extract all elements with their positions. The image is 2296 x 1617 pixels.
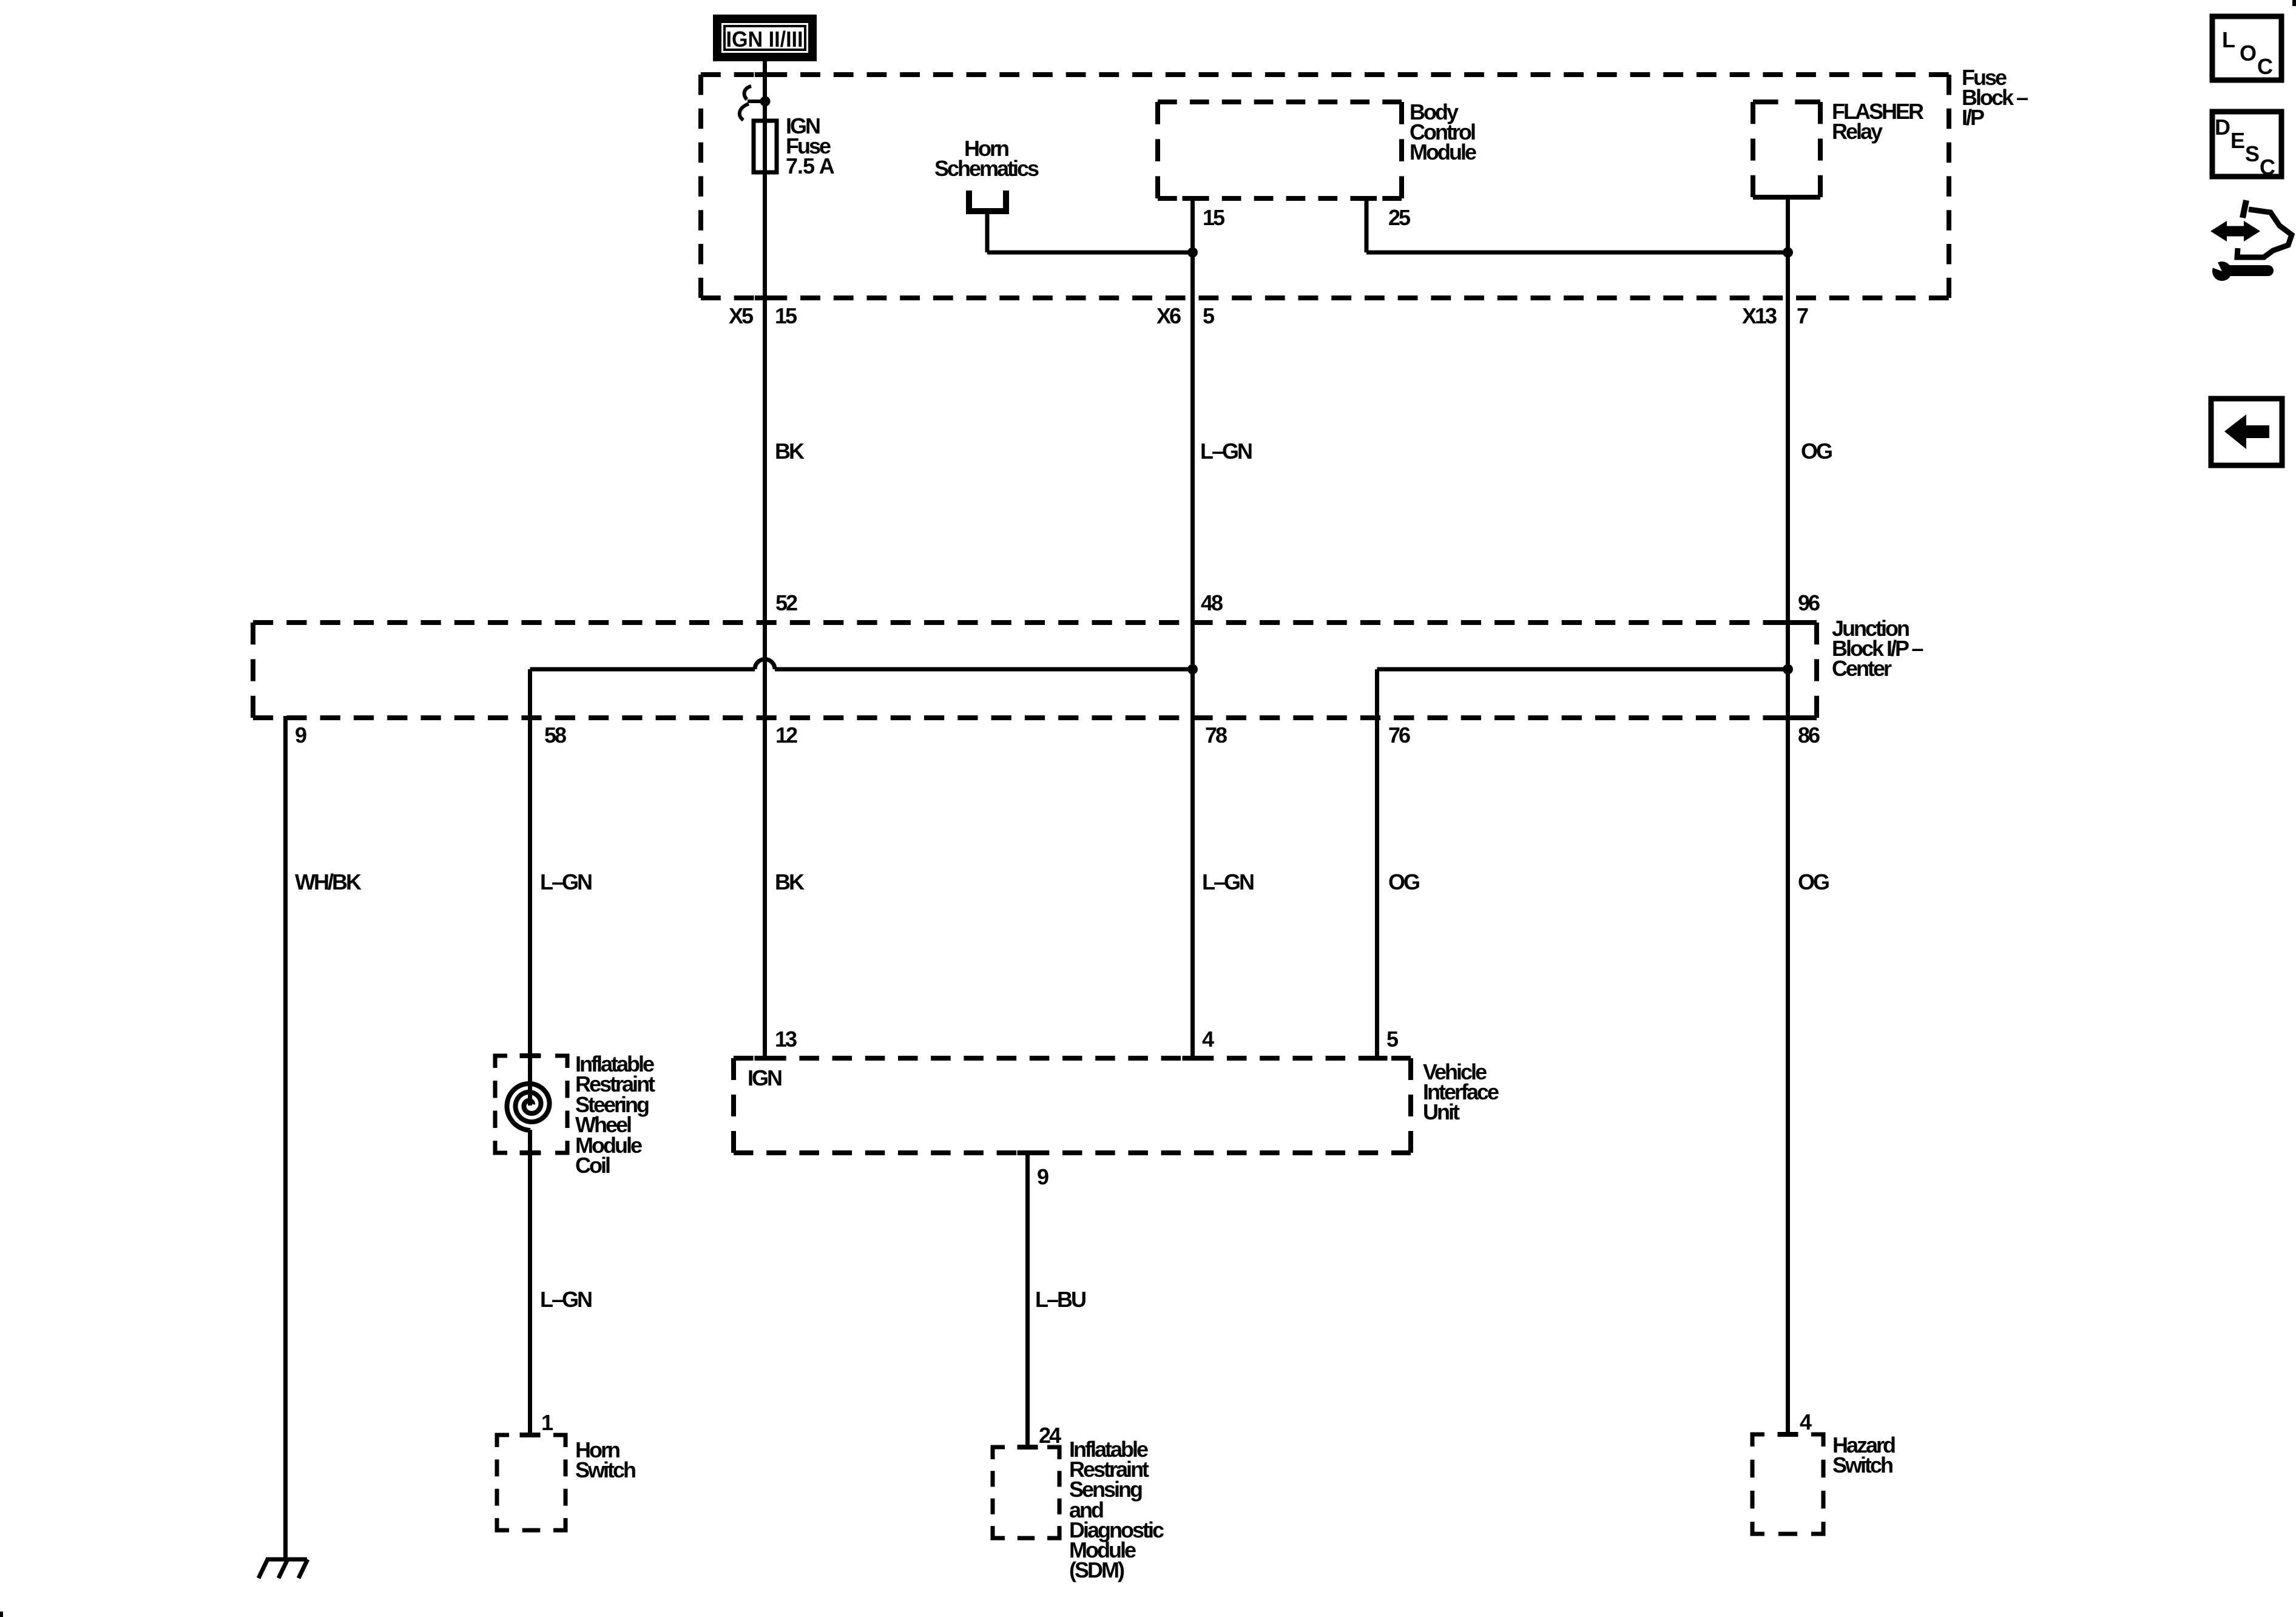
hazard switch label — [1832, 1433, 1895, 1477]
svg-text:BK: BK — [775, 439, 805, 464]
wire WH/BK junction pin 9 to ground — [283, 716, 288, 1558]
svg-text:9: 9 — [1037, 1164, 1048, 1189]
svg-text:L–GN: L–GN — [540, 1287, 592, 1312]
coil label — [575, 1052, 655, 1178]
svg-text:L: L — [2222, 27, 2235, 52]
junction node bus to L-GN wire — [1187, 664, 1198, 675]
wire BK vertical from IGN II/III through fuse to VIU pin 13 — [763, 59, 767, 1058]
page corner mark bottom-left — [0, 1612, 3, 1617]
svg-text:7.5 A: 7.5 A — [786, 154, 835, 178]
svg-text:X13: X13 — [1742, 303, 1777, 328]
svg-text:Schematics: Schematics — [934, 156, 1039, 181]
switch contact symbol at top of IGN fuse feed — [740, 86, 765, 120]
svg-text:I/P: I/P — [1962, 105, 1984, 130]
svg-text:78: 78 — [1205, 723, 1227, 748]
svg-text:Center: Center — [1832, 656, 1892, 681]
inflatable restraint sensing and diagnostic module dashed box — [993, 1447, 1059, 1538]
svg-text:(SDM): (SDM) — [1069, 1558, 1124, 1582]
svg-text:76: 76 — [1388, 723, 1410, 748]
svg-text:5: 5 — [1386, 1027, 1399, 1052]
diagnostic arrow-wrench icon — [2207, 200, 2292, 281]
wire from horn bracket to BCM pin 15 wire — [987, 251, 1192, 255]
svg-text:86: 86 — [1798, 723, 1820, 748]
ground symbol — [258, 1559, 308, 1578]
svg-text:Relay: Relay — [1832, 119, 1883, 144]
svg-text:C: C — [2257, 54, 2273, 79]
internal bus wire with hop over BK wire — [530, 660, 1193, 670]
svg-text:Module: Module — [1410, 140, 1476, 164]
BCM label — [1410, 100, 1476, 164]
svg-text:15: 15 — [775, 303, 797, 328]
svg-text:IGN: IGN — [748, 1065, 782, 1090]
junction node on L-GN wire — [1187, 248, 1198, 258]
svg-text:OG: OG — [1388, 869, 1419, 894]
wire L-GN from BCM pin 15 to VIU pin 4 — [1190, 198, 1195, 1058]
power feed label IGN II/III — [713, 15, 817, 61]
VIU label — [1423, 1059, 1499, 1124]
svg-text:5: 5 — [1203, 303, 1215, 328]
Body Control Module dashed box — [1158, 102, 1402, 198]
svg-text:WH/BK: WH/BK — [295, 869, 362, 894]
connector X5 pin 15 label — [729, 303, 797, 328]
svg-text:58: 58 — [544, 723, 566, 748]
DESC legend box — [2212, 112, 2281, 180]
FLASHER Relay label — [1832, 99, 1924, 144]
svg-text:BK: BK — [775, 869, 805, 894]
Vehicle Interface Unit dashed box — [734, 1058, 1411, 1153]
wire OG from FLASHER relay to hazard switch — [1786, 197, 1790, 1434]
svg-text:OG: OG — [1801, 439, 1832, 464]
internal bus wire right segment — [1377, 667, 1788, 672]
junction node on OG wire — [1783, 248, 1793, 258]
svg-text:O: O — [2240, 41, 2256, 66]
wire stub from BCM pin 25 — [1365, 198, 1369, 252]
inflatable restraint steering wheel module coil dashed box — [495, 1056, 567, 1153]
fuse block I/P dashed box — [701, 75, 1949, 298]
svg-text:15: 15 — [1203, 205, 1225, 230]
svg-text:X6: X6 — [1156, 303, 1181, 328]
back arrow navigation box — [2211, 399, 2282, 465]
svg-text:Switch: Switch — [1832, 1453, 1893, 1477]
fuse block label — [1962, 65, 2028, 130]
svg-text:4: 4 — [1800, 1409, 1812, 1434]
wire OG junction 76 to VIU pin 5 — [1375, 669, 1379, 1058]
horn switch label — [575, 1437, 635, 1482]
wire L-GN junction 58 to horn switch through coil — [528, 669, 532, 1106]
LOC legend box — [2212, 16, 2281, 80]
connector X6 pin 5 label — [1156, 303, 1215, 328]
svg-text:48: 48 — [1201, 590, 1223, 615]
junction node at switch tick — [760, 96, 771, 107]
svg-text:L–GN: L–GN — [540, 869, 592, 894]
svg-text:Coil: Coil — [575, 1153, 610, 1178]
svg-text:9: 9 — [295, 723, 306, 748]
svg-text:24: 24 — [1039, 1423, 1061, 1448]
fuse IGN 7.5 A — [754, 121, 777, 172]
connector X13 pin 7 label — [1742, 303, 1808, 328]
wire from BCM pin 25 to flasher relay wire — [1366, 251, 1788, 255]
svg-text:L–BU: L–BU — [1035, 1287, 1086, 1312]
svg-text:7: 7 — [1797, 303, 1808, 328]
SDM label — [1069, 1437, 1164, 1582]
svg-text:96: 96 — [1798, 590, 1820, 615]
svg-text:C: C — [2260, 155, 2275, 180]
svg-text:E: E — [2230, 128, 2244, 153]
FLASHER Relay dashed box — [1753, 102, 1820, 197]
svg-text:S: S — [2245, 141, 2259, 166]
svg-text:Switch: Switch — [575, 1457, 635, 1482]
fuse block top edge dash at feed crossing — [755, 72, 775, 77]
svg-text:OG: OG — [1798, 869, 1829, 894]
svg-text:25: 25 — [1388, 205, 1411, 230]
svg-text:L–GN: L–GN — [1202, 869, 1254, 894]
fuse block bottom edge dash at X5 crossing — [755, 295, 775, 300]
svg-text:Unit: Unit — [1423, 1099, 1460, 1124]
page corner mark top-right — [2292, 0, 2296, 6]
junction block label — [1832, 616, 1923, 681]
junction node bus to OG wire — [1783, 664, 1793, 675]
wire L-BU VIU pin 9 to SDM — [1025, 1153, 1030, 1447]
coil spiral symbol — [507, 1084, 550, 1130]
svg-text:52: 52 — [775, 590, 797, 615]
hazard switch dashed box — [1752, 1434, 1823, 1534]
svg-text:L–GN: L–GN — [1200, 439, 1252, 464]
svg-text:IGN II/III: IGN II/III — [726, 27, 803, 52]
junction block I/P center dashed box — [253, 623, 1817, 718]
horn schematics bracket symbol — [969, 191, 1006, 252]
svg-text:12: 12 — [775, 723, 797, 748]
IGN fuse value label — [786, 113, 835, 178]
horn switch dashed box — [497, 1435, 566, 1530]
svg-text:13: 13 — [775, 1027, 797, 1052]
svg-text:4: 4 — [1202, 1027, 1214, 1052]
svg-text:1: 1 — [541, 1410, 553, 1435]
svg-text:X5: X5 — [729, 303, 754, 328]
Horn Schematics reference label — [934, 136, 1039, 181]
svg-text:D: D — [2215, 115, 2230, 140]
